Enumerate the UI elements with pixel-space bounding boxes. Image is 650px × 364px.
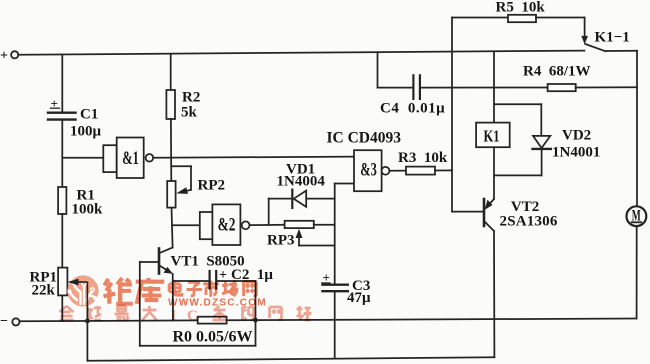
svg-text:I: I bbox=[171, 308, 177, 324]
watermark small characters dian zi shi chang wang bbox=[169, 281, 256, 297]
svg-text:5k: 5k bbox=[181, 105, 198, 121]
svg-text:+: + bbox=[219, 268, 227, 283]
potentiometer RP2 bbox=[167, 166, 191, 207]
watermark slogan IC letters bbox=[171, 308, 198, 324]
wire rail to R2 bbox=[170, 54, 172, 90]
capacitor C3 bbox=[322, 283, 348, 359]
wire VT1 emitter to rail bbox=[172, 274, 174, 321]
op-amp U3 NAND gate &amp;3 bbox=[354, 150, 389, 191]
node junction rail-C2-box bbox=[253, 318, 258, 323]
wire RP2 bottom to VT1 collector node bbox=[172, 208, 173, 248]
wire gate U2 input bbox=[172, 224, 200, 226]
svg-text:&1: &1 bbox=[122, 148, 139, 169]
wire bottom rail right of R0 bbox=[227, 319, 637, 321]
wire node B vertical bbox=[334, 184, 336, 284]
wire RP1 wiper redraw over logo bbox=[68, 279, 88, 321]
potentiometer RP3 bbox=[285, 221, 335, 246]
svg-text:C: C bbox=[187, 308, 198, 324]
diode VD1 bbox=[269, 190, 335, 208]
transistor VT1 bbox=[140, 248, 173, 274]
svg-text:22k: 22k bbox=[32, 283, 56, 299]
svg-text:+: + bbox=[0, 48, 8, 63]
svg-text:VT2: VT2 bbox=[511, 199, 539, 215]
node - terminal bbox=[12, 318, 19, 325]
wire node C long vertical R5-C4-R3-VT2 base bbox=[451, 18, 453, 212]
svg-text:+: + bbox=[51, 96, 58, 111]
svg-text:R3 10k: R3 10k bbox=[398, 150, 448, 166]
svg-text:M: M bbox=[632, 208, 641, 225]
wire gate U1 output to gate U3 bbox=[153, 157, 354, 158]
svg-text:R5 10k: R5 10k bbox=[496, 0, 546, 16]
wire R1 to RP1 bbox=[61, 214, 63, 268]
wire K1 bottom to VT2 emitter bbox=[493, 147, 495, 199]
svg-text:VD2: VD2 bbox=[562, 128, 591, 144]
wire gate U3 input 2 bbox=[335, 183, 354, 185]
node junction rail-RP1 wiper bbox=[85, 319, 90, 324]
capacitor C4 bbox=[378, 75, 548, 99]
svg-text:C4 0.01μ: C4 0.01μ bbox=[380, 101, 445, 117]
svg-text:C1: C1 bbox=[80, 107, 98, 123]
wire C1 bottom to R1 bbox=[61, 121, 63, 187]
svg-text:+: + bbox=[323, 270, 330, 285]
wire rail to K1 coil bbox=[493, 51, 495, 122]
watermark url text bbox=[168, 298, 267, 309]
svg-text:K1: K1 bbox=[484, 127, 500, 146]
svg-text:K1−1: K1−1 bbox=[595, 30, 630, 46]
wire rail to C4 bbox=[377, 52, 379, 87]
svg-text:−: − bbox=[0, 314, 8, 329]
wire gate U2 output to RP3 bbox=[250, 199, 285, 226]
relay K1 bbox=[476, 123, 510, 148]
resistor R4 bbox=[548, 84, 637, 91]
watermark big characters Wei Ku bbox=[103, 278, 164, 304]
wire RP1 bottom to rail bbox=[61, 295, 63, 321]
diode VD2 bbox=[533, 104, 551, 175]
wire K1-VD2 bottom link bbox=[494, 174, 542, 176]
svg-text:100k: 100k bbox=[72, 202, 104, 218]
op-amp U2 NAND gate &amp;2 bbox=[200, 204, 250, 245]
wire bottom rail left of R0 bbox=[20, 319, 198, 322]
svg-text:RP3: RP3 bbox=[267, 233, 295, 249]
wire R2 bottom to RP2 bbox=[170, 119, 172, 181]
wire K1-VD2 top link bbox=[494, 103, 541, 105]
wire top rail bbox=[18, 51, 584, 55]
wire rail corner to motor bbox=[636, 51, 638, 207]
svg-text:100μ: 100μ bbox=[70, 124, 102, 140]
wire bottom bypass to R0 left bbox=[87, 321, 494, 361]
potentiometer RP1 bbox=[58, 268, 87, 321]
resistor R1 bbox=[58, 187, 66, 214]
switch K1-1 bbox=[581, 18, 605, 52]
op-amp U1 NAND gate &amp;1 bbox=[103, 138, 153, 179]
resistor R2 bbox=[166, 90, 175, 119]
svg-text:IC CD4093: IC CD4093 bbox=[327, 130, 402, 147]
wire motor to bottom rail bbox=[636, 226, 638, 318]
svg-text:2SA1306: 2SA1306 bbox=[500, 214, 558, 230]
svg-text:R4 68/1W: R4 68/1W bbox=[523, 64, 591, 80]
capacitor C1 bbox=[48, 108, 76, 119]
watermark logo bbox=[67, 275, 98, 306]
wire VT1 base down around R0 label box bbox=[140, 262, 256, 346]
wire C1 top bbox=[61, 55, 63, 112]
svg-text:47μ: 47μ bbox=[347, 290, 371, 306]
resistor R5 bbox=[452, 15, 585, 22]
resistor R0 bbox=[198, 317, 227, 324]
svg-text:&3: &3 bbox=[360, 160, 377, 181]
watermark slogan row bbox=[60, 306, 311, 320]
wire gate U1 input bbox=[62, 157, 103, 159]
svg-text:RP2: RP2 bbox=[198, 178, 226, 194]
svg-text:1N4001: 1N4001 bbox=[552, 145, 600, 161]
capacitor C2 bbox=[173, 271, 256, 320]
svg-text:R0 0.05/6W: R0 0.05/6W bbox=[173, 329, 253, 346]
svg-text:1N4004: 1N4004 bbox=[277, 174, 326, 190]
motor M bbox=[627, 206, 647, 226]
transistor VT2 bbox=[452, 199, 494, 231]
resistor R3 bbox=[389, 167, 452, 175]
svg-text:R2: R2 bbox=[182, 90, 200, 106]
wire VT2 collector down bbox=[493, 231, 495, 357]
wire rail right of switch bbox=[606, 50, 638, 52]
svg-text:&2: &2 bbox=[218, 215, 236, 236]
node + terminal bbox=[11, 51, 18, 58]
